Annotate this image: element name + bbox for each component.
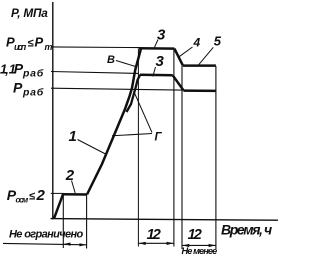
- svg-text:2: 2: [152, 227, 161, 243]
- curve: hold at 1.1 P_rab (segment 3 lower): [140, 73, 173, 76]
- svg-text:Время, ч: Время, ч: [221, 222, 272, 238]
- leader for v: [116, 61, 136, 67]
- dim arrow right at x=86.5: [79, 243, 86, 246]
- curve: drop to P_rab: [173, 75, 184, 90]
- svg-text:Р: Р: [13, 80, 23, 96]
- leader for g lower: [112, 134, 152, 136]
- extension line at x=173.9: [173, 49, 175, 247]
- dim arrow left at x=63: [64, 243, 71, 246]
- label P_rab: [13, 80, 44, 99]
- svg-text:3: 3: [156, 53, 165, 70]
- svg-text:1: 1: [69, 128, 77, 145]
- svg-text:В: В: [107, 54, 115, 66]
- svg-text:Р, МПа: Р, МПа: [11, 6, 48, 20]
- svg-text:исп: исп: [14, 42, 27, 52]
- svg-text:2: 2: [65, 167, 75, 184]
- svg-text:≤: ≤: [29, 190, 35, 202]
- svg-text:2: 2: [36, 187, 46, 204]
- curve: hold at P_osm (segment 2): [62, 193, 87, 196]
- dimension line "Ne ogranicheno": [3, 243, 87, 244]
- label 1,1 P_rab: [0, 61, 44, 80]
- svg-text:раб: раб: [22, 87, 44, 99]
- extension line at x=138.4: [137, 49, 139, 247]
- svg-text:≤: ≤: [28, 38, 34, 50]
- curve: main pressure rise (segment 1 / v): [87, 49, 141, 195]
- svg-text:Не ограничено: Не ограничено: [9, 229, 83, 241]
- curve: hold at P_isp (segment 3 upper): [139, 47, 174, 50]
- curve: hold at P_rab: [183, 89, 216, 92]
- level line P_isp (test pressure): [51, 46, 140, 49]
- level line P_rab: [51, 88, 216, 90]
- y-axis (pressure axis): [52, 2, 54, 219]
- svg-text:5: 5: [214, 34, 222, 49]
- svg-text:3: 3: [157, 26, 166, 43]
- extension line at x=182: [181, 66, 183, 249]
- svg-text:Р: Р: [35, 34, 44, 49]
- leader for 5: [199, 47, 214, 65]
- svg-text:Не менее: Не менее: [182, 246, 218, 256]
- dimension line 12 (first): [138, 242, 174, 244]
- svg-text:осм: осм: [16, 196, 29, 205]
- svg-text:т: т: [45, 42, 53, 52]
- curve: initial pressure rise to P_osm: [54, 194, 63, 218]
- extension line at x=86.5: [86, 195, 88, 249]
- label P_isp <= P_t: [6, 34, 53, 52]
- svg-text:2: 2: [193, 227, 202, 243]
- extension line at x=63: [62, 195, 64, 248]
- label 12 (first): [147, 227, 161, 243]
- curve: pressure drop (segment 4): [174, 49, 183, 66]
- dimension line 12 (second): [182, 244, 216, 246]
- leader for 4: [178, 47, 192, 57]
- svg-text:раб: раб: [22, 68, 44, 80]
- extension line at x=215.9: [215, 66, 217, 249]
- dim arrows first 12: [139, 242, 146, 245]
- curve: hold segment 5: [183, 64, 216, 67]
- level line 1.1 P_rab: [51, 72, 139, 74]
- leader for 1: [78, 140, 106, 155]
- svg-text:Г: Г: [155, 131, 163, 143]
- label P_osm <= 2: [7, 187, 46, 205]
- label 12 (second): [188, 227, 202, 243]
- svg-text:4: 4: [193, 35, 201, 49]
- tick on axis at P_osm level: [51, 192, 64, 194]
- dim arrows second 12: [182, 244, 189, 247]
- curve: branch rise to 1.1 P_rab plateau: [127, 75, 141, 112]
- leader for g upper: [134, 91, 152, 133]
- leader for 3 upper: [155, 40, 159, 48]
- leader for 2: [72, 181, 76, 194]
- x-axis (time axis): [51, 219, 279, 221]
- leader for 3 lower: [153, 67, 156, 77]
